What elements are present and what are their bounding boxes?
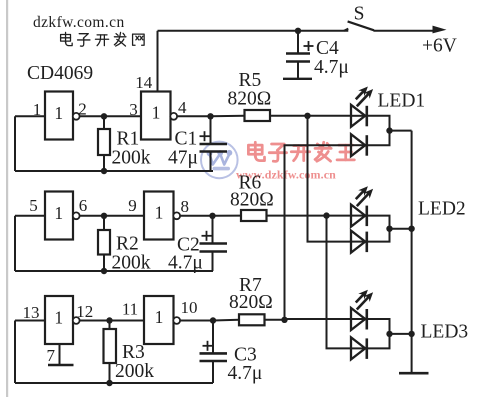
wire to +6V with arrow <box>374 30 438 32</box>
svg-text:1: 1 <box>54 203 63 223</box>
svg-text:47μ: 47μ <box>168 148 198 169</box>
wire stage2 output <box>180 215 213 217</box>
ground main <box>399 372 429 375</box>
wire stage2 bottom rail <box>15 270 213 272</box>
svg-text:R1: R1 <box>117 129 140 150</box>
inverter stage3 first output bubble <box>73 317 80 324</box>
wire stage1 left vertical <box>14 116 16 171</box>
wire LED3 top anode <box>285 318 352 320</box>
node R5 output <box>304 113 310 119</box>
node LED2 bus junction <box>408 226 414 232</box>
wire R5 right <box>270 115 308 117</box>
wire stage2 input <box>15 215 45 217</box>
svg-text:7: 7 <box>47 346 56 365</box>
svg-text:200k: 200k <box>112 148 151 169</box>
ground pin7 <box>48 364 74 366</box>
wire R2 top <box>103 216 105 230</box>
resistor R7 <box>239 314 265 325</box>
capacitor C4 <box>283 31 314 79</box>
svg-text:6: 6 <box>79 196 88 215</box>
wire bus C (R7 to LED1 lower) <box>285 145 352 320</box>
LED D3a <box>351 308 365 330</box>
wire R6 right <box>267 215 327 217</box>
wire R7 right <box>265 319 285 321</box>
node LED2 cathode junction <box>386 226 392 232</box>
resistor R6 <box>241 210 267 221</box>
svg-text:1: 1 <box>155 307 164 327</box>
wire stage1 bottom rail <box>15 170 213 172</box>
LED D1a <box>351 105 365 127</box>
capacitor C1 <box>200 116 228 171</box>
svg-text:9: 9 <box>128 196 137 215</box>
svg-text:4.7μ: 4.7μ <box>314 57 349 78</box>
node LED3 bus junction <box>408 331 414 337</box>
svg-text:200k: 200k <box>112 253 151 274</box>
svg-text:11: 11 <box>122 300 138 319</box>
svg-text:200k: 200k <box>115 361 154 382</box>
switch S blade <box>348 21 374 30</box>
node stage1 output junction <box>207 113 213 119</box>
svg-text:14: 14 <box>135 73 153 92</box>
node stage2 R junction <box>101 213 107 219</box>
node R7 output <box>281 317 287 323</box>
inverter box stage3 second <box>144 296 174 344</box>
svg-text:C1: C1 <box>175 129 198 150</box>
capacitor C3 <box>200 321 228 384</box>
wire LED3 to bus <box>390 333 412 335</box>
svg-text:820Ω: 820Ω <box>229 292 273 313</box>
wire R2 bottom <box>103 255 105 272</box>
inverter U1E box stage3 first <box>45 296 73 344</box>
wire pin7 stub <box>59 344 61 365</box>
node stage1 R junction <box>101 113 107 119</box>
wire stage3 middle <box>79 320 144 322</box>
svg-text:R3: R3 <box>122 342 145 363</box>
svg-text:LED1: LED1 <box>378 91 426 112</box>
svg-text:LED2: LED2 <box>418 199 466 220</box>
LED D2a <box>351 205 365 227</box>
inverter stage1 first output bubble <box>73 113 80 120</box>
LED D3b <box>351 337 365 359</box>
wire stage2 left vertical <box>14 216 16 271</box>
wire R3 bottom <box>109 363 111 383</box>
LED D1a flash arrows <box>356 90 365 100</box>
wire stage1 output <box>177 115 211 117</box>
inverter U1C box stage2 first <box>45 192 73 240</box>
svg-text:+6V: +6V <box>422 36 457 57</box>
capacitor C2 <box>200 216 228 271</box>
svg-text:LED3: LED3 <box>421 322 469 343</box>
node stage3 output junction <box>210 317 216 323</box>
node LED1 cathode junction <box>386 127 392 133</box>
watermark red text 电子开发网 <box>248 142 354 161</box>
wire R3 top <box>109 321 111 330</box>
svg-text:1: 1 <box>33 100 42 119</box>
wire stage3 left vertical <box>14 321 16 384</box>
resistor R1 <box>98 129 110 155</box>
svg-text:8: 8 <box>180 197 189 216</box>
wire pin14 vertical <box>157 31 159 92</box>
wire stage3 input <box>15 320 45 322</box>
wire LED2 to bus <box>390 228 412 230</box>
svg-text:1: 1 <box>155 203 164 223</box>
inverter stage2 second output bubble <box>173 212 180 219</box>
LED D1b <box>351 134 365 156</box>
svg-text:3: 3 <box>129 100 138 119</box>
resistor R3 <box>104 329 117 363</box>
svg-text:10: 10 <box>181 298 198 317</box>
resistor R5 <box>245 110 271 121</box>
wire R1 bottom <box>103 155 105 171</box>
wire LED1 top anode <box>308 115 352 117</box>
node R3 bottom junction <box>106 380 112 386</box>
wire LED1 cathodes join <box>367 116 390 145</box>
svg-text:12: 12 <box>76 302 93 321</box>
svg-text:4: 4 <box>178 98 187 117</box>
svg-text:CD4069: CD4069 <box>27 63 93 84</box>
LED D2b <box>351 231 365 253</box>
inverter U1A box stage1 first <box>45 92 73 140</box>
svg-text:dzkfw.com.cn: dzkfw.com.cn <box>33 14 125 31</box>
node stage3 R junction <box>106 317 112 323</box>
wire stage1 input <box>15 115 45 117</box>
wire top rail <box>158 30 349 32</box>
svg-text:820Ω: 820Ω <box>228 89 272 110</box>
inverter stage1 second output bubble <box>170 113 177 120</box>
svg-text:1: 1 <box>54 103 63 123</box>
watermark W logo <box>201 142 238 179</box>
svg-text:1: 1 <box>54 308 63 328</box>
svg-text:C4: C4 <box>316 38 339 59</box>
node stage2 output junction <box>209 213 215 219</box>
wire LED2 top anode <box>327 215 352 217</box>
inverter stage3 second output bubble <box>173 317 180 324</box>
svg-text:5: 5 <box>29 196 38 215</box>
wire R6 left <box>213 215 242 217</box>
svg-text:R2: R2 <box>116 234 139 255</box>
node LED3 cathode junction <box>386 331 392 337</box>
svg-text:820Ω: 820Ω <box>230 190 274 211</box>
inverter box stage2 second <box>144 192 174 240</box>
node R6 output <box>323 212 329 218</box>
svg-text:4.7μ: 4.7μ <box>228 363 263 384</box>
svg-text:4.7μ: 4.7μ <box>168 253 203 274</box>
svg-text:S: S <box>354 4 365 25</box>
wire LED3 cathodes join <box>367 319 390 348</box>
wire stage3 output <box>180 320 213 322</box>
node R1 bottom junction <box>101 168 107 174</box>
svg-text:13: 13 <box>23 303 40 322</box>
wire R5 left <box>211 115 245 118</box>
svg-text:1: 1 <box>152 103 161 123</box>
decorative gray scan edge <box>6 0 8 397</box>
wire bus A (R5 to LED2 lower) <box>308 116 352 242</box>
header text 电子开发网 <box>61 32 145 46</box>
wire stage2 middle <box>79 215 144 217</box>
wire stage3 bottom rail <box>15 382 213 384</box>
inverter stage2 first output bubble <box>73 212 80 219</box>
wire R7 left <box>213 319 239 322</box>
LED D3a flash arrows <box>356 293 365 303</box>
node R2 bottom junction <box>101 268 107 274</box>
wire LED2 cathodes join <box>367 216 390 242</box>
LED D2a flash arrows <box>356 190 365 200</box>
node C4 junction <box>295 28 301 34</box>
resistor R2 <box>98 230 110 255</box>
wire stage1 middle <box>79 115 141 117</box>
wire LED1 to bus <box>390 130 412 132</box>
wire bus B (R6 to LED3 lower) <box>327 216 352 349</box>
inverter box stage1 second <box>141 92 171 140</box>
wire R1 top <box>103 116 105 129</box>
wire right ground bus <box>411 131 413 373</box>
